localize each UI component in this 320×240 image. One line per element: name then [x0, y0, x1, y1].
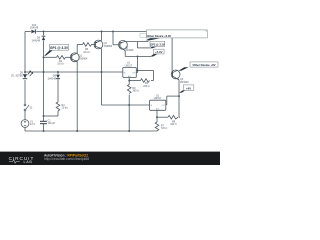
svg-text:390 Ω: 390 Ω: [132, 90, 139, 93]
wire main vertical x=113: [112, 32, 114, 45]
svg-text:10 kΩ: 10 kΩ: [62, 107, 69, 110]
svg-text:ADJ: ADJ: [156, 108, 159, 111]
junction node at Q3 emitter wire: [137, 55, 139, 57]
svg-text:2N3906: 2N3906: [104, 45, 113, 48]
wire bottom rail: [25, 130, 157, 132]
junction at U2 ADJ / R7 / R8: [156, 116, 158, 118]
svg-text:2N3904: 2N3904: [79, 57, 88, 60]
wire Q2 collector down: [101, 49, 103, 106]
transistor Q3: [119, 40, 135, 52]
wire ADJ to R8: [157, 116, 168, 118]
wire left rail mid (LED to switch): [24, 80, 26, 104]
wire left vertical below mid rail to C1: [43, 72, 45, 121]
resistor R4: [44, 102, 69, 116]
junction at R3 branch / bottom rail: [128, 130, 130, 132]
svg-text:ADJ: ADJ: [128, 75, 131, 78]
junction at Q1 emitter / bottom rail: [76, 130, 78, 132]
node callout Other Device +5.0V: [146, 30, 208, 41]
wire U2 OUT stub: [166, 104, 167, 106]
transistor Q2: [94, 40, 113, 49]
LED D5: [11, 71, 33, 79]
wire Q1 collector up: [76, 45, 78, 54]
wire left rail upper: [24, 32, 26, 74]
voltage source V1: [21, 120, 35, 128]
junction at Q4 emitter / U2 OUT wire: [178, 95, 180, 97]
svg-text:LM317: LM317: [154, 97, 162, 100]
junction at Q2 collector / mid rail: [101, 71, 103, 73]
junction at R3 / U2 IN wire: [128, 104, 130, 106]
svg-text:10 kΩ: 10 kΩ: [57, 63, 64, 66]
svg-text:GP2 @ 3.3V: GP2 @ 3.3V: [150, 43, 165, 47]
junction at U1 OUT loop: [137, 70, 139, 72]
resistor R3: [127, 85, 139, 94]
resistor R6: [83, 43, 92, 54]
wire mid rail: [25, 71, 123, 73]
node callout GP1 @ 3.3V: [44, 44, 69, 55]
wire top rail: [25, 31, 31, 33]
svg-text:720 Ω: 720 Ω: [161, 127, 168, 130]
junction at left rail / mid rail: [24, 71, 26, 73]
svg-text:10 kΩ: 10 kΩ: [83, 51, 90, 54]
wire Q3 top (emitter) to callout: [125, 41, 148, 43]
wire lower feed to U2 IN: [102, 104, 150, 106]
wire U2 OUT up and right: [166, 96, 168, 105]
wire left rail lower (switch to V1): [24, 111, 26, 120]
resistor R7: [155, 122, 167, 131]
IC U2 LM317 regulator: [150, 94, 166, 110]
wire R2 right lead: [151, 80, 154, 82]
junction at D9 branch / mid rail: [43, 71, 45, 73]
wire Q3 base stub: [113, 44, 120, 46]
resistor R1: [57, 56, 66, 66]
svg-text:OUT: OUT: [132, 72, 136, 74]
svg-text:S1: S1: [30, 106, 34, 109]
capacitor C1: [40, 119, 56, 125]
wire R8 right lead: [179, 116, 180, 118]
svg-text:240 Ω: 240 Ω: [170, 123, 177, 126]
svg-text:2N3904: 2N3904: [180, 81, 189, 84]
wire D9 vertical branch: [43, 32, 45, 36]
wire R7 bottom to bottom rail: [156, 130, 158, 133]
svg-text:LM317: LM317: [125, 64, 133, 67]
diode D10: [30, 24, 39, 33]
IC U1 LM317 regulator: [123, 62, 137, 78]
svg-text:1N4148: 1N4148: [47, 77, 56, 80]
wire R1 to Q1 base: [66, 56, 72, 58]
svg-text:LTL-307EE: LTL-307EE: [11, 74, 24, 77]
wire node down to U1 OUT: [137, 56, 139, 72]
wire Q4 base vertical from callout: [171, 38, 173, 74]
diode D9: [31, 36, 45, 42]
svg-text:2N3906: 2N3906: [125, 49, 134, 52]
wire U2 ADJ stub: [156, 110, 158, 122]
junction at R1 / D9 branch: [43, 56, 45, 58]
svg-text:1N4148: 1N4148: [30, 26, 39, 29]
junction at D8 / mid rail: [57, 71, 59, 73]
wire Q3 bottom to +5.0V node: [124, 51, 126, 56]
wire Q2 emitter to top rail: [101, 32, 103, 41]
wire C1 bottom to bottom rail: [43, 124, 45, 131]
svg-text:OUT: OUT: [161, 105, 165, 107]
svg-text:Other Device +5.0V: Other Device +5.0V: [147, 34, 171, 38]
node flag box at top rail end: [140, 33, 146, 37]
wire ADJ junction to R3: [128, 81, 130, 85]
node callout GP2 @ 3.3V: [150, 41, 165, 48]
diode D8: [47, 72, 60, 102]
wire branch to GP2 callout: [137, 42, 139, 48]
resistor R2: [141, 79, 150, 88]
wire R2 left lead to ADJ junction: [129, 80, 140, 82]
junction at R4 return / C1 branch: [43, 115, 45, 117]
svg-text:http://circuitlab.com/c/bw4pk6: http://circuitlab.com/c/bw4pk68: [44, 157, 89, 161]
wire Q1 emitter down to bottom rail: [76, 62, 78, 132]
svg-text:240 Ω: 240 Ω: [143, 85, 150, 88]
svg-text:+6V: +6V: [186, 86, 191, 90]
svg-text:GP1 @ 3.3V: GP1 @ 3.3V: [50, 46, 69, 50]
svg-text:Other Device +6V: Other Device +6V: [192, 63, 215, 67]
wire V1 bottom to bottom rail: [24, 128, 26, 132]
wire R3 bottom to lower feed: [128, 95, 130, 132]
svg-text:LAB: LAB: [24, 160, 33, 164]
svg-text:12 V: 12 V: [30, 123, 35, 126]
node callout +5.0V: [150, 49, 164, 56]
wire U1 ADJ stub: [128, 78, 130, 81]
junction at Q3 feed / top rail: [112, 31, 114, 33]
junction at D9 / top rail: [43, 31, 45, 33]
wire U1 OUT stub: [136, 72, 137, 74]
svg-text:+5.0V: +5.0V: [155, 50, 162, 54]
svg-text:100 µF: 100 µF: [48, 122, 56, 125]
watermark bar: [0, 152, 220, 165]
junction at U1 ADJ: [128, 80, 130, 82]
resistor R8: [168, 115, 178, 126]
junction at C1 branch / bottom rail: [43, 130, 45, 132]
transistor Q1: [70, 53, 88, 62]
transistor Q4: [171, 70, 189, 84]
node callout Other Device +6V: [178, 62, 218, 71]
svg-text:1N4148: 1N4148: [31, 39, 40, 42]
junction at Q2 emitter / top rail: [101, 31, 103, 33]
node callout +6V: [179, 85, 194, 93]
wire R6 to Q2 base: [92, 44, 96, 46]
wire U1 OUT loop over: [138, 70, 154, 72]
switch S1: [24, 104, 33, 111]
wire R1 input: [44, 56, 57, 58]
wire Q4 emitter vertical: [178, 80, 180, 117]
